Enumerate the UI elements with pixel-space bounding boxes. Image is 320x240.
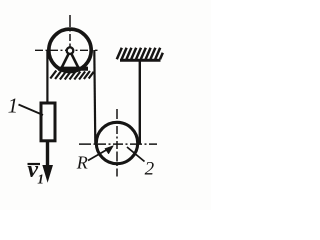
radius R leader line with arrow to centre [88,149,108,161]
pulley axle hub [67,47,74,54]
movable pulley centerline vertical [116,109,118,177]
leader line for label 2 [127,147,145,162]
svg-text:R: R [76,152,88,172]
velocity arrow v1 head [43,166,52,182]
pulley bracket legs [62,53,70,68]
wire: right rope from fixed pulley down to movable pulley [94,50,95,144]
label v1 (velocity) [27,157,44,186]
pulley (fixed) rim [49,29,91,71]
fixed pulley centerline vertical [69,15,71,47]
svg-text:1: 1 [8,94,19,118]
wire: rope from ceiling to right side of movable pulley [139,60,141,145]
load 1 (block on rope) [41,103,55,141]
pulley 2 (movable) rim [96,122,137,163]
velocity arrow v1 shaft [46,141,49,168]
bracket base bar [58,67,88,71]
movable pulley centerline horizontal [79,143,157,145]
leader line for label 1 [19,105,44,116]
svg-text:1: 1 [37,172,44,187]
wire: left rope from fixed pulley to load 1 [46,50,48,104]
ceiling support (hatched) [117,48,163,60]
base hatching [50,71,93,80]
svg-text:2: 2 [145,159,155,180]
fixed pulley centerline horizontal [35,49,98,51]
